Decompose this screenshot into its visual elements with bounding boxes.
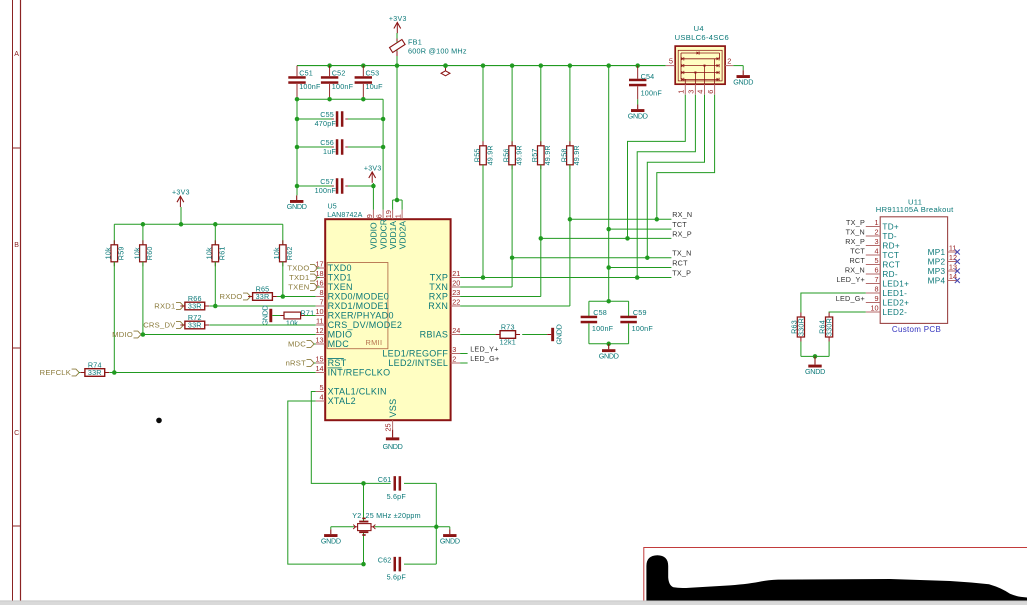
- svg-text:R56: R56: [502, 148, 511, 162]
- svg-text:5: 5: [875, 256, 879, 265]
- svg-text:LED2+: LED2+: [882, 299, 909, 308]
- svg-text:Y2: Y2: [352, 511, 361, 520]
- svg-text:TD+: TD+: [882, 223, 899, 232]
- svg-text:12k1: 12k1: [500, 338, 516, 347]
- svg-text:MP1: MP1: [928, 248, 946, 257]
- svg-text:RMII: RMII: [366, 338, 383, 347]
- svg-text:9: 9: [875, 294, 879, 303]
- svg-text:5.6pF: 5.6pF: [387, 492, 407, 501]
- svg-text:TX_P: TX_P: [846, 218, 865, 227]
- svg-text:TXP: TXP: [430, 273, 448, 283]
- svg-text:3: 3: [875, 237, 879, 246]
- svg-text:GNDD: GNDD: [628, 111, 648, 120]
- svg-text:C55: C55: [320, 110, 334, 119]
- svg-text:RST: RST: [328, 358, 347, 368]
- svg-text:MP2: MP2: [928, 258, 946, 267]
- svg-text:TCT: TCT: [850, 247, 865, 256]
- svg-text:C61: C61: [378, 475, 392, 484]
- svg-text:R57: R57: [530, 148, 539, 162]
- svg-text:33R: 33R: [188, 321, 202, 330]
- svg-text:RBIAS: RBIAS: [420, 330, 449, 340]
- svg-text:RD-: RD-: [882, 270, 897, 279]
- svg-text:C56: C56: [320, 138, 334, 147]
- svg-text:2: 2: [727, 57, 731, 66]
- svg-text:10k: 10k: [272, 247, 281, 259]
- svg-text:LED_Y+: LED_Y+: [470, 345, 498, 354]
- svg-text:5: 5: [320, 383, 324, 392]
- svg-text:MDIO: MDIO: [112, 330, 133, 339]
- svg-text:VSS: VSS: [388, 399, 398, 418]
- svg-text:10k: 10k: [132, 247, 141, 259]
- svg-text:3: 3: [452, 345, 456, 354]
- svg-text:C51: C51: [299, 68, 313, 77]
- svg-text:R58: R58: [559, 148, 568, 162]
- svg-text:Custom PCB: Custom PCB: [892, 325, 941, 334]
- svg-text:4: 4: [320, 393, 324, 402]
- svg-text:10: 10: [315, 307, 323, 316]
- svg-text:TX_N: TX_N: [846, 228, 865, 237]
- svg-text:GNDD: GNDD: [321, 536, 341, 545]
- svg-text:GNDD: GNDD: [599, 351, 619, 360]
- svg-text:49.9R: 49.9R: [572, 145, 581, 165]
- svg-text:GNDD: GNDD: [554, 324, 563, 344]
- svg-text:GNDD: GNDD: [733, 77, 753, 86]
- svg-text:RX_N: RX_N: [845, 266, 865, 275]
- svg-text:12: 12: [315, 326, 323, 335]
- svg-text:100nF: 100nF: [592, 324, 614, 333]
- svg-text:25: 25: [384, 423, 393, 431]
- svg-text:LED1-: LED1-: [882, 289, 907, 298]
- svg-text:49.9R: 49.9R: [543, 145, 552, 165]
- svg-text:A: A: [14, 51, 19, 58]
- svg-text:10k: 10k: [205, 247, 214, 259]
- svg-text:10k: 10k: [104, 247, 113, 259]
- svg-text:TX_P: TX_P: [672, 268, 691, 277]
- svg-text:TXD1: TXD1: [328, 273, 352, 283]
- svg-text:15: 15: [315, 355, 323, 364]
- svg-text:R61: R61: [218, 246, 227, 260]
- svg-text:RXER/PHYAD0: RXER/PHYAD0: [328, 311, 394, 321]
- svg-text:25 MHz ±20ppm: 25 MHz ±20ppm: [366, 511, 421, 520]
- svg-text:100nF: 100nF: [632, 324, 654, 333]
- svg-text:RCT: RCT: [672, 258, 688, 267]
- svg-text:100nF: 100nF: [332, 82, 354, 91]
- svg-text:470pF: 470pF: [315, 119, 337, 128]
- svg-text:LED1+: LED1+: [882, 280, 909, 289]
- svg-text:GNDD: GNDD: [805, 367, 825, 376]
- svg-text:TXDO: TXDO: [287, 264, 309, 273]
- svg-text:2: 2: [452, 355, 456, 364]
- svg-text:RX_N: RX_N: [672, 210, 692, 219]
- svg-text:MP3: MP3: [928, 267, 946, 276]
- svg-text:7: 7: [875, 275, 879, 284]
- svg-text:6: 6: [706, 90, 715, 94]
- svg-text:600R @100 MHz: 600R @100 MHz: [408, 47, 467, 56]
- svg-text:4: 4: [875, 247, 879, 256]
- svg-text:nRST: nRST: [286, 359, 307, 368]
- svg-text:14: 14: [315, 364, 323, 373]
- svg-text:13: 13: [315, 336, 323, 345]
- svg-text:GNDD: GNDD: [261, 305, 270, 325]
- svg-text:C58: C58: [593, 308, 607, 317]
- svg-text:RXP: RXP: [429, 292, 448, 302]
- svg-text:C: C: [14, 430, 19, 437]
- svg-text:TXD0: TXD0: [328, 263, 352, 273]
- svg-text:6: 6: [375, 214, 384, 218]
- svg-text:B: B: [14, 242, 19, 249]
- svg-text:+3V3: +3V3: [364, 165, 382, 172]
- svg-text:20: 20: [452, 279, 460, 288]
- svg-text:R60: R60: [145, 246, 154, 260]
- svg-text:3: 3: [687, 90, 696, 94]
- svg-text:U4: U4: [694, 24, 704, 33]
- svg-text:33R: 33R: [88, 368, 102, 377]
- svg-text:VDDCR: VDDCR: [378, 219, 388, 249]
- svg-text:TXD1: TXD1: [289, 273, 309, 282]
- svg-text:TXEN: TXEN: [288, 283, 309, 292]
- svg-text:C62: C62: [378, 556, 392, 565]
- svg-text:R59: R59: [117, 246, 126, 260]
- svg-text:TXEN: TXEN: [328, 282, 353, 292]
- svg-text:TXN: TXN: [429, 282, 448, 292]
- svg-text:+3V3: +3V3: [389, 16, 407, 23]
- svg-text:RXD1: RXD1: [154, 302, 175, 311]
- svg-text:10k: 10k: [286, 319, 298, 328]
- svg-text:23: 23: [452, 288, 460, 297]
- svg-text:RX_P: RX_P: [672, 229, 692, 238]
- svg-text:MDC: MDC: [328, 339, 350, 349]
- svg-text:7: 7: [320, 298, 324, 307]
- svg-text:RXN: RXN: [428, 301, 448, 311]
- svg-text:9: 9: [365, 214, 374, 218]
- svg-text:RX_P: RX_P: [845, 237, 865, 246]
- svg-text:GNDD: GNDD: [383, 442, 403, 451]
- svg-text:GNDD: GNDD: [287, 202, 307, 211]
- svg-text:LAN8742A: LAN8742A: [327, 211, 362, 219]
- svg-text:U5: U5: [328, 203, 337, 211]
- svg-text:INT/REFCLKO: INT/REFCLKO: [328, 368, 391, 378]
- svg-text:LED2/INTSEL: LED2/INTSEL: [388, 358, 448, 368]
- svg-text:RCT: RCT: [882, 261, 900, 270]
- svg-text:100nF: 100nF: [315, 186, 337, 195]
- svg-text:LED_G+: LED_G+: [836, 294, 865, 303]
- svg-text:+3V3: +3V3: [172, 189, 190, 196]
- svg-text:1: 1: [677, 90, 686, 94]
- svg-text:49.9R: 49.9R: [485, 145, 494, 165]
- svg-text:49.9R: 49.9R: [514, 145, 523, 165]
- svg-text:C59: C59: [633, 308, 647, 317]
- svg-text:1: 1: [875, 218, 879, 227]
- svg-text:VDD1A: VDD1A: [388, 221, 398, 250]
- svg-text:GNDD: GNDD: [440, 536, 460, 545]
- svg-text:RXD1/MODE1: RXD1/MODE1: [328, 301, 390, 311]
- svg-text:10uF: 10uF: [366, 82, 384, 91]
- svg-text:MDIO: MDIO: [328, 330, 353, 340]
- svg-text:33R: 33R: [188, 302, 202, 311]
- svg-text:XTAL1/CLKIN: XTAL1/CLKIN: [328, 387, 387, 397]
- svg-text:R55: R55: [472, 148, 481, 162]
- svg-text:LED1/REGOFF: LED1/REGOFF: [382, 349, 448, 359]
- svg-text:RXD0/MODE0: RXD0/MODE0: [328, 292, 390, 302]
- svg-text:TD-: TD-: [882, 232, 897, 241]
- svg-text:8: 8: [875, 285, 879, 294]
- svg-text:C54: C54: [641, 72, 655, 81]
- svg-text:24: 24: [452, 326, 460, 335]
- svg-text:10: 10: [870, 304, 878, 313]
- svg-text:RD+: RD+: [882, 242, 900, 251]
- svg-text:5: 5: [669, 57, 673, 66]
- svg-text:11: 11: [949, 244, 957, 253]
- svg-text:R62: R62: [285, 246, 294, 260]
- svg-text:VDD2A: VDD2A: [397, 221, 407, 250]
- svg-text:LED_Y+: LED_Y+: [837, 275, 865, 284]
- svg-text:1uF: 1uF: [323, 147, 336, 156]
- svg-text:330R: 330R: [796, 318, 805, 336]
- svg-text:LED_G+: LED_G+: [470, 354, 499, 363]
- svg-text:100nF: 100nF: [641, 88, 663, 97]
- svg-text:CRS_DV/MODE2: CRS_DV/MODE2: [328, 320, 403, 330]
- svg-text:8: 8: [320, 288, 324, 297]
- svg-text:22: 22: [452, 298, 460, 307]
- svg-text:19: 19: [384, 210, 393, 218]
- svg-text:RCT: RCT: [849, 256, 865, 265]
- svg-text:VDDIO: VDDIO: [369, 222, 379, 249]
- svg-text:CRS_DV: CRS_DV: [143, 321, 176, 330]
- svg-text:LED2-: LED2-: [882, 308, 907, 317]
- svg-text:HR911105A Breakout: HR911105A Breakout: [876, 205, 954, 214]
- svg-text:4: 4: [696, 90, 705, 94]
- svg-text:C53: C53: [366, 68, 380, 77]
- svg-text:330R: 330R: [825, 318, 834, 336]
- svg-text:USBLC6-4SC6: USBLC6-4SC6: [675, 33, 729, 42]
- svg-text:1: 1: [394, 214, 403, 218]
- svg-text:C57: C57: [320, 177, 334, 186]
- svg-text:C52: C52: [332, 68, 346, 77]
- svg-text:R73: R73: [501, 322, 515, 331]
- svg-text:6: 6: [875, 266, 879, 275]
- svg-text:REFCLK: REFCLK: [40, 368, 71, 377]
- svg-text:100nF: 100nF: [299, 82, 321, 91]
- svg-text:TCT: TCT: [672, 220, 687, 229]
- svg-text:FB1: FB1: [408, 37, 422, 46]
- svg-text:21: 21: [452, 269, 460, 278]
- svg-text:MDC: MDC: [288, 340, 306, 349]
- svg-text:TCT: TCT: [882, 251, 899, 260]
- svg-text:RXDO: RXDO: [220, 292, 243, 301]
- svg-text:MP4: MP4: [928, 277, 946, 286]
- svg-text:TX_N: TX_N: [672, 249, 691, 258]
- svg-text:2: 2: [875, 228, 879, 237]
- svg-text:33R: 33R: [256, 292, 270, 301]
- svg-text:11: 11: [316, 317, 324, 326]
- svg-text:5.6pF: 5.6pF: [387, 573, 407, 582]
- svg-text:XTAL2: XTAL2: [328, 396, 356, 406]
